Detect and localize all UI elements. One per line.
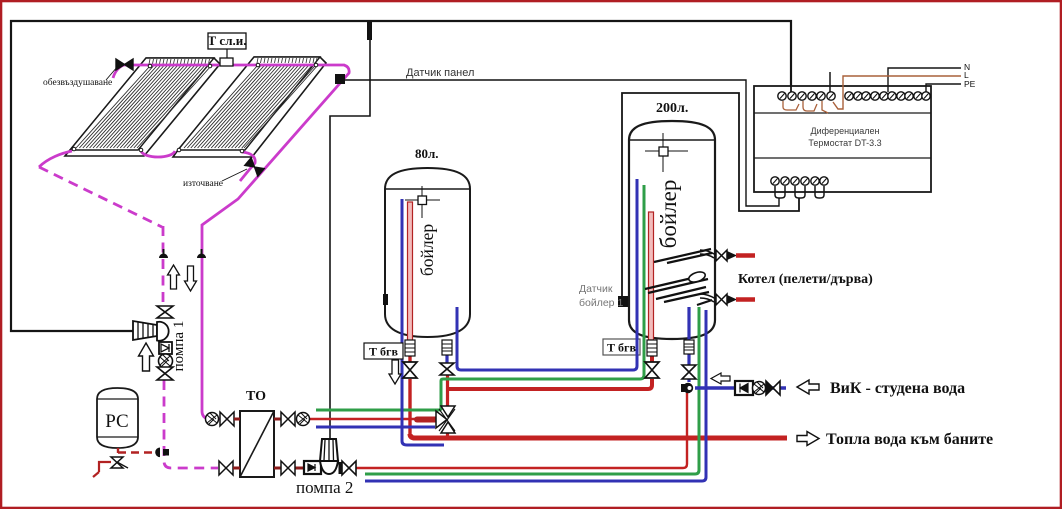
pipe 200L right green loop	[365, 307, 699, 474]
TO left top: filter + valve	[206, 413, 219, 426]
boiler 80L body	[385, 168, 470, 337]
80L flex red	[405, 340, 415, 356]
ViK tee fitting	[683, 383, 693, 393]
pipe 80L interior red (pink core)	[408, 202, 413, 342]
80L flex blue	[442, 340, 452, 355]
expansion vessel PC	[97, 388, 138, 448]
80L sensor crosshair	[405, 186, 440, 218]
flow arrow down (80L)	[389, 360, 401, 384]
pipe 80L interior blue	[401, 199, 404, 340]
safety valve PC	[111, 457, 123, 468]
bottom jumper loops	[775, 186, 785, 198]
svg-text:РС: РС	[105, 411, 128, 432]
ViK check valve box	[735, 381, 753, 395]
TO left bottom valve	[219, 461, 233, 475]
flow arrow up (return line)	[168, 265, 180, 289]
svg-text:Т бгв: Т бгв	[369, 345, 398, 359]
200L sensor crosshair	[645, 133, 688, 172]
MAGENTA PIPES	[39, 65, 349, 468]
wire boiler sensor to thermostat	[622, 93, 799, 297]
wire pump2 power branch	[330, 22, 370, 440]
flow arrow right (hot water)	[797, 432, 819, 446]
node boiler sensor square	[618, 296, 628, 307]
ViK valve	[766, 381, 780, 395]
svg-text:80л.: 80л.	[415, 146, 439, 161]
svg-text:бойлер: бойлер	[656, 180, 681, 249]
pump2 body cup	[320, 461, 338, 474]
label T bgv 200 (under pipes)	[603, 339, 640, 355]
TO diagonal	[240, 411, 274, 477]
pipe return dashed diagonal	[39, 167, 162, 227]
label T bgv 80	[364, 343, 403, 359]
wire stub terminal 6	[829, 72, 831, 93]
pipe return dashed vertical	[162, 226, 165, 308]
pipe 80L blue elbow to under-mixer	[402, 340, 444, 445]
collector 2 panel face	[178, 57, 320, 150]
pipe red mixer vertical	[446, 375, 449, 438]
pipe pump2 red return	[356, 393, 687, 468]
wire panel sensor to thermostat	[344, 80, 779, 206]
svg-text:бойлер: бойлер	[417, 224, 437, 277]
boiler 80L side sensor mark	[383, 294, 388, 305]
svg-text:Датчик панел: Датчик панел	[406, 67, 474, 79]
valve pump1 top	[157, 306, 173, 318]
svg-text:източване: източване	[183, 179, 223, 189]
SOLAR COLLECTORS	[65, 57, 326, 157]
pipe 200L blue right drop	[687, 307, 690, 382]
pump2 motor funnel	[320, 439, 338, 461]
boiler 200L body	[629, 121, 715, 339]
terminals top-left group	[778, 92, 835, 100]
svg-text:PE: PE	[964, 79, 976, 89]
wire PE	[926, 84, 961, 92]
vessel PC seams	[97, 399, 138, 437]
200L coil	[645, 249, 712, 305]
label T sl.i. box	[208, 33, 246, 49]
boiler 80L shoulder seam	[385, 188, 470, 190]
wire pump1 power loop	[11, 21, 791, 331]
200L valve blue right	[682, 365, 696, 379]
mixer 3-way valve	[436, 411, 447, 428]
80L valve red	[403, 362, 417, 378]
pipe red stub TO-to-pump2	[295, 467, 305, 470]
flow arrow small left (ViK)	[711, 373, 730, 384]
BOILERS	[97, 121, 715, 477]
collector 2 hatch	[184, 65, 318, 148]
valve air vent (top left)	[116, 59, 133, 70]
terminals bottom group	[771, 177, 828, 185]
pipe TO hot red out	[309, 418, 420, 421]
svg-text:Т сл.и.: Т сл.и.	[208, 33, 247, 48]
T sl.i. sensor pocket	[226, 49, 228, 58]
pump2 flange	[339, 462, 342, 474]
pipe 80L hot red drop	[408, 356, 411, 434]
fitting on solid supply line	[197, 254, 206, 259]
valve drain (rotated)	[245, 158, 264, 177]
svg-text:помпа 1: помпа 1	[171, 321, 187, 372]
pipe drain stub	[240, 152, 255, 181]
wire brown jumpers	[783, 101, 828, 113]
svg-text:помпа 2: помпа 2	[296, 478, 353, 497]
svg-text:Котел (пелети/дърва): Котел (пелети/дърва)	[738, 272, 873, 287]
kotel stub top: wavy + valve + arrow + red	[700, 250, 716, 258]
pipe TO green link	[316, 185, 644, 410]
port circles collectors	[72, 63, 318, 153]
node panel sensor square	[335, 74, 345, 84]
collector 1 hatch	[76, 66, 211, 148]
thermostat DT-3.3 box	[754, 86, 931, 192]
pipe PC dashed red	[118, 451, 160, 454]
pipe inter-panel bottom U	[141, 151, 175, 157]
svg-text:обезвъздушаване: обезвъздушаване	[43, 77, 112, 88]
fitting PC to return	[155, 447, 160, 457]
terminals top-right group	[845, 92, 930, 100]
pipe 200L right blue loop	[365, 310, 706, 481]
collector 1 header ticks	[149, 59, 210, 64]
collector 2 slab side faces	[173, 57, 326, 157]
pipe ViK cold blue	[695, 386, 786, 389]
svg-text:ВиК - студена вода: ВиК - студена вода	[830, 380, 965, 397]
pipe hot water to baths (thick red)	[410, 434, 787, 438]
pump1 check valve box	[159, 342, 172, 354]
pump1 motor funnel	[133, 321, 157, 340]
fitting on dashed return line	[159, 254, 168, 259]
svg-text:ТО: ТО	[246, 389, 266, 404]
TO right top: valve + filter	[274, 418, 281, 421]
pipe red stub to mixer (thick blob)	[417, 417, 436, 423]
ViK strainer	[753, 382, 766, 395]
TO right bottom valve	[274, 467, 281, 470]
pump1 body	[157, 322, 169, 341]
flow arrow up big (pump1)	[139, 343, 154, 371]
pipe 80L cold blue link	[457, 179, 637, 370]
boiler 200L shoulder seam	[629, 139, 715, 141]
heat exchanger TO box	[240, 411, 274, 477]
svg-text:бойлер 1: бойлер 1	[579, 297, 623, 309]
pipe 200L interior red (pink core)	[649, 212, 654, 340]
pump1 filter	[159, 354, 173, 368]
collector 1 slab side faces	[65, 58, 220, 156]
svg-text:200л.: 200л.	[656, 101, 688, 116]
wire L brown	[833, 76, 961, 109]
svg-text:Датчик: Датчик	[579, 283, 613, 295]
vessel PC red drop	[117, 448, 119, 453]
80L valve blue	[440, 363, 454, 375]
valve pump1 bottom	[157, 367, 173, 380]
THERMOSTAT	[754, 21, 961, 198]
pipe solar supply header	[113, 65, 349, 419]
collector 2 header ticks	[257, 58, 317, 63]
pipe TO blue stub	[316, 426, 435, 429]
pipe return dashed pump1 to TO	[164, 380, 218, 468]
kotel stub bottom	[700, 294, 716, 302]
COLOR PIPES	[295, 179, 787, 481]
wire L vertical into terminal	[790, 21, 792, 93]
flow arrow down (supply line)	[185, 266, 197, 291]
wire N	[888, 68, 961, 92]
svg-text:Топла вода към баните: Топла вода към баните	[826, 431, 993, 448]
svg-text:Т бгв: Т бгв	[607, 341, 636, 355]
flow arrow big left (ViK)	[797, 380, 819, 394]
svg-text:Диференциален: Диференциален	[811, 126, 880, 136]
pipe return solid at collector	[39, 151, 72, 167]
valve pump2 out	[342, 461, 356, 475]
collector 1 panel face	[70, 58, 214, 150]
pump2 check valve box	[304, 461, 321, 474]
junction thick mark	[367, 22, 372, 40]
200L flex blue right	[684, 340, 694, 354]
pipe 200L red drain to mixer line	[448, 356, 652, 389]
200L valve red	[645, 362, 659, 378]
200L flex red	[647, 340, 657, 356]
svg-text:Термостат DT-3.3: Термостат DT-3.3	[808, 138, 881, 148]
pipe 80L blue drop to mixer	[445, 355, 448, 363]
